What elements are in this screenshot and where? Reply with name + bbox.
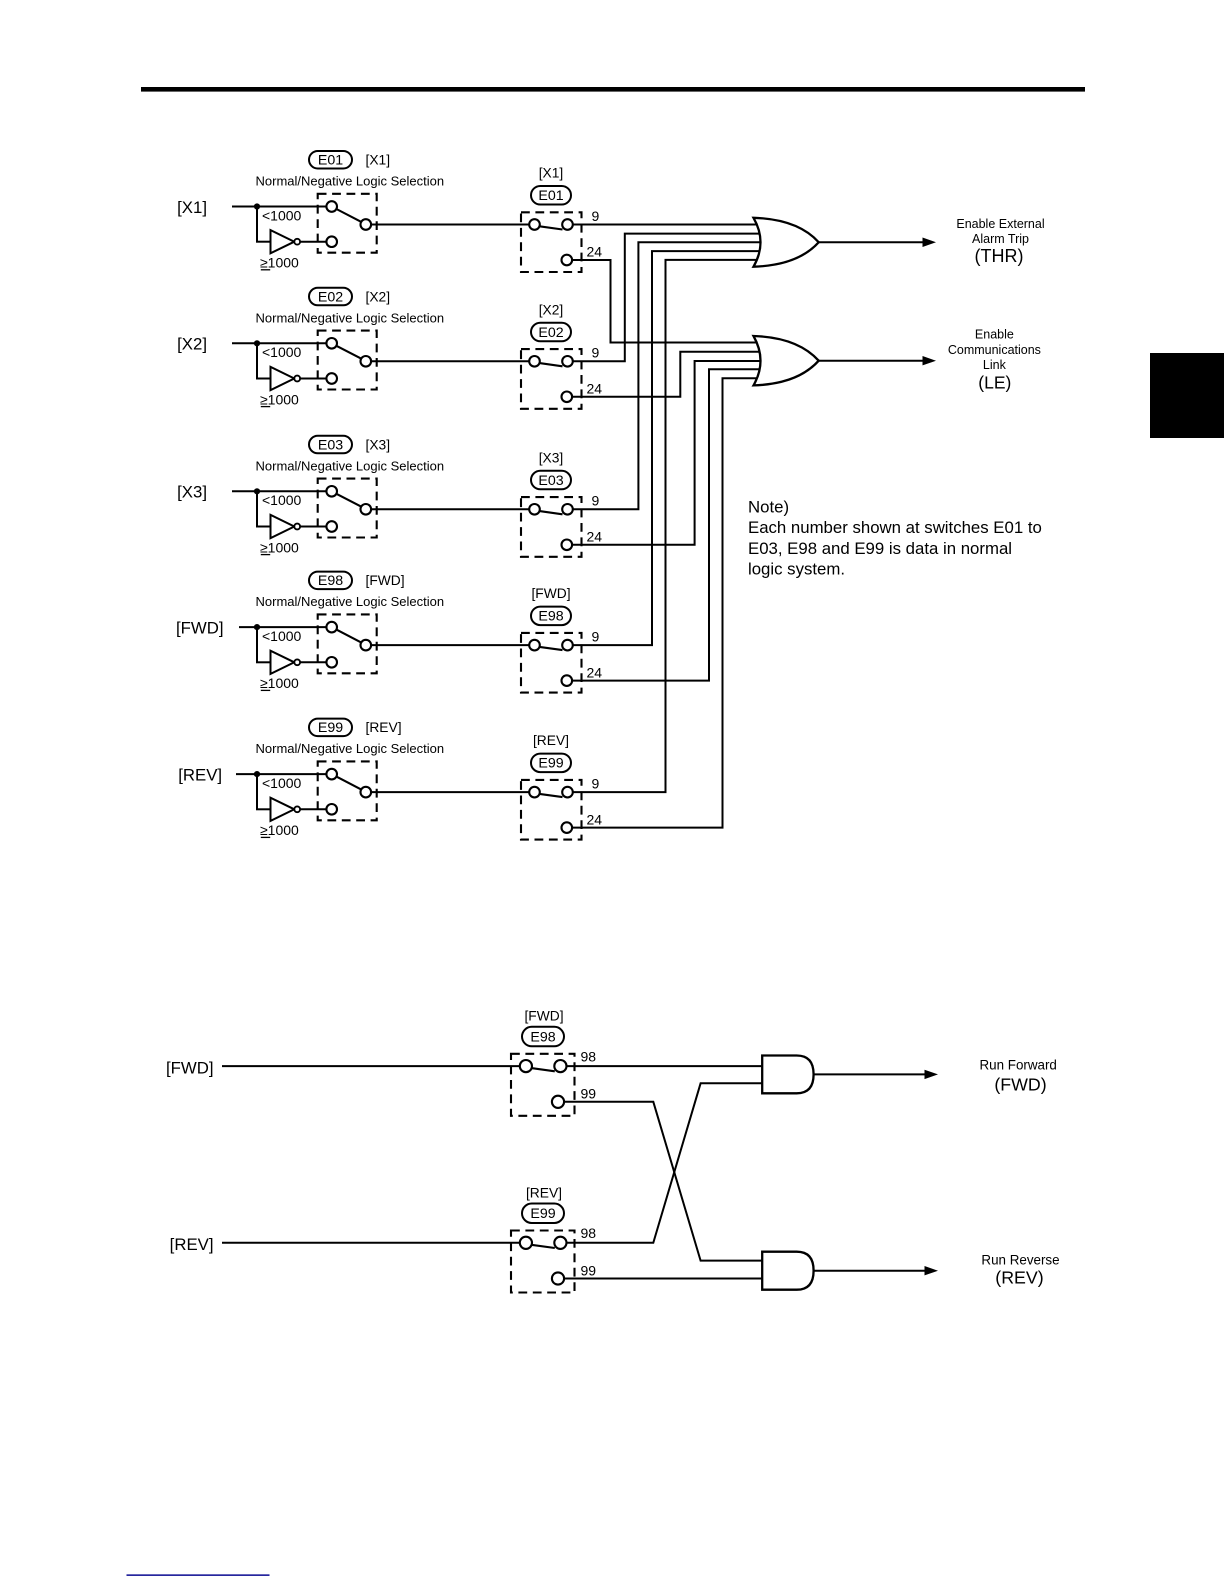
wire FWD input [239,626,327,628]
svg-text:9: 9 [592,628,600,644]
svg-text:Normal/Negative Logic Selectio: Normal/Negative Logic Selection [256,310,445,325]
wire U2 output with arrow [819,356,936,365]
svg-text:[X1]: [X1] [539,166,564,181]
svg-text:logic system.: logic system. [748,560,845,579]
junction X3 [254,488,260,494]
svg-text:99: 99 [581,1086,597,1102]
svg-text:<1000: <1000 [262,775,302,791]
svg-text:E03: E03 [538,473,563,489]
svg-text:E98: E98 [318,573,343,589]
label &lt;1000 (X1 normal logic) [262,207,302,223]
label &ge;1000 (X3 negative logic) [260,539,299,555]
label E01 (logic selection) [309,151,352,169]
svg-text:98: 98 [581,1225,597,1241]
svg-text:[X2]: [X2] [366,289,391,304]
svg-text:[X1]: [X1] [366,153,391,168]
pin label 9 (FWD) [592,628,600,644]
svg-text:[FWD]: [FWD] [176,619,224,638]
svg-text:[FWD]: [FWD] [531,586,570,601]
wire inverter REV output [300,808,327,810]
wire X3 data-24 to OR (LE) [572,361,763,545]
wire U1 output with arrow [819,238,936,248]
label E02 (logic selection) [309,288,352,306]
inverter X1 (negative logic) [271,230,301,253]
svg-text:[REV]: [REV] [526,1185,562,1200]
wire X2 input [232,342,327,344]
svg-text:9: 9 [592,775,600,791]
wire inverter X3 output [300,526,327,528]
row X2 channel [177,234,763,409]
label E99 (function code pill) [531,754,571,773]
svg-text:[FWD]: [FWD] [366,573,405,588]
label [FWD] beside E98 [366,573,405,588]
svg-text:[X1]: [X1] [177,198,207,217]
svg-text:9: 9 [592,493,600,509]
svg-text:E01: E01 [318,153,343,169]
pin label 24 (FWD) [587,664,603,680]
svg-text:E98: E98 [530,1029,555,1045]
wire X2 selected-logic to function switch [371,360,529,362]
row X1 channel [177,151,763,343]
wire X1 to inverter [256,206,271,242]
svg-text:Normal/Negative Logic Selectio: Normal/Negative Logic Selection [256,458,445,473]
pin label 9 (X1) [592,208,600,224]
pin label 98 (FWD) [581,1049,597,1065]
svg-text:[REV]: [REV] [170,1235,214,1254]
pin label 99 (FWD) [581,1086,597,1102]
pin label 9 (X2) [592,345,600,361]
label &lt;1000 (X2 normal logic) [262,344,302,360]
svg-text:Normal/Negative Logic Selectio: Normal/Negative Logic Selection [256,594,445,609]
node [X2] input terminal label [177,335,207,354]
junction FWD [254,624,260,630]
switch E99 logic-selection (SPDT) [318,761,377,820]
svg-text:Normal/Negative Logic Selectio: Normal/Negative Logic Selection [256,741,445,756]
label E02 (function code pill) [531,323,571,342]
label [REV] above function switch [533,733,569,748]
label &ge;1000 (X1 negative logic) [260,255,299,271]
svg-text:E01: E01 [538,188,563,204]
svg-text:Enable External: Enable External [956,217,1044,231]
label E98 (function code pill) [531,607,571,626]
label &ge;1000 (REV negative logic) [260,822,299,838]
row X3 channel [177,242,763,557]
switch E99 run command (bottom) [511,1231,575,1293]
label &ge;1000 (X2 negative logic) [260,391,299,407]
switch E03 function assignment [521,497,582,557]
svg-text:[REV]: [REV] [533,733,569,748]
label Run Reverse (REV) [981,1253,1059,1288]
wire FWD selected-logic to function switch [371,644,529,646]
wire FWD contact-99 crossing to AND (REV) [564,1102,762,1261]
label Enable Communications Link (LE) [948,327,1041,392]
svg-text:E03, E98 and E99 is data in no: E03, E98 and E99 is data in normal [748,539,1012,558]
junction X1 [254,203,260,209]
wire X3 data-9 to OR (THR) [573,242,763,509]
wire inverter FWD output [300,661,327,663]
svg-text:Run Reverse: Run Reverse [981,1253,1059,1268]
node [REV] input terminal label (bottom) [170,1235,214,1254]
wire X3 selected-logic to function switch [371,508,529,510]
svg-text:9: 9 [592,345,600,361]
pin label 24 (REV) [587,811,603,827]
svg-text:Enable: Enable [975,327,1014,341]
label [REV] beside E99 [366,720,402,735]
wire U3 output with arrow [814,1070,938,1079]
label E99 pill (bottom) [522,1204,564,1224]
svg-text:Normal/Negative Logic Selectio: Normal/Negative Logic Selection [256,174,445,189]
svg-text:24: 24 [587,811,603,827]
label Run Forward (FWD) [979,1058,1056,1095]
label Normal/Negative Logic Selection FWD [256,594,445,609]
and-gate U3 (Run Forward) [762,1056,813,1094]
label [X1] above function switch [539,166,564,181]
svg-text:98: 98 [581,1049,597,1065]
junction REV [254,771,260,777]
label E99 (logic selection) [309,719,352,737]
FWD run channel [166,1009,762,1261]
label Normal/Negative Logic Selection X1 [256,174,445,189]
wire inverter X1 output [300,241,327,243]
wire X1 data-9 to OR (THR) [573,224,763,226]
label Enable External Alarm Trip (THR) [956,217,1044,266]
top rule [141,87,1085,92]
svg-text:[FWD]: [FWD] [524,1009,563,1024]
svg-text:24: 24 [587,381,603,397]
svg-text:99: 99 [581,1262,597,1278]
wire X1 input [232,206,327,208]
label E03 (function code pill) [531,471,571,490]
wire X2 to inverter [256,342,271,378]
label &ge;1000 (FWD negative logic) [260,675,299,691]
label &lt;1000 (FWD normal logic) [262,628,302,644]
svg-text:(THR): (THR) [975,246,1024,266]
svg-text:≥1000: ≥1000 [260,539,299,555]
switch E99 function assignment [521,780,582,840]
wire REV to inverter [256,773,271,809]
svg-text:E99: E99 [530,1206,555,1222]
pin label 24 (X1) [587,244,603,260]
or-gate U2 (Enable Communications Link) [754,336,819,385]
REV run channel [170,1083,763,1292]
svg-text:<1000: <1000 [262,628,302,644]
label [FWD] above switch E98 (bottom) [524,1009,563,1024]
inverter FWD (negative logic) [271,651,301,674]
svg-text:[X3]: [X3] [366,437,391,452]
wire REV data-24 to OR (LE) [572,378,763,827]
label [FWD] above function switch [531,586,570,601]
svg-text:[FWD]: [FWD] [166,1058,214,1077]
node [REV] input terminal label [178,766,222,785]
svg-text:<1000: <1000 [262,344,302,360]
wire REV contact-99 to AND (REV) [564,1278,762,1280]
switch E98 run command (bottom) [511,1054,575,1116]
label Normal/Negative Logic Selection REV [256,741,445,756]
label &lt;1000 (REV normal logic) [262,775,302,791]
switch E02 logic-selection (SPDT) [318,331,377,390]
svg-text:9: 9 [592,208,600,224]
pin label 24 (X2) [587,381,603,397]
svg-text:Communications: Communications [948,343,1041,357]
wire REV input (bottom) [222,1242,520,1244]
svg-text:Each number shown at switches: Each number shown at switches E01 to [748,518,1042,537]
node [X1] input terminal label [177,198,207,217]
switch E02 function assignment [521,349,582,409]
svg-text:≥1000: ≥1000 [260,675,299,691]
chapter tab (black) [1150,353,1224,438]
wire X3 to inverter [256,490,271,526]
wire FWD input (bottom) [222,1065,520,1067]
switch E98 function assignment [521,633,582,693]
row REV channel [178,260,763,840]
or-gate U1 (Enable External Alarm Trip) [754,218,819,267]
label Normal/Negative Logic Selection X3 [256,458,445,473]
label E01 (function code pill) [531,186,571,205]
wire inverter X2 output [300,378,327,380]
pin label 98 (REV) [581,1225,597,1241]
node [FWD] input terminal label [176,619,224,638]
wire REV contact-98 crossing to AND (FWD) [566,1083,762,1243]
label [X1] beside E01 [366,153,391,168]
svg-text:(REV): (REV) [995,1268,1043,1288]
svg-text:(LE): (LE) [978,372,1011,392]
label &lt;1000 (X3 normal logic) [262,492,302,508]
footer rule (blue) [127,1574,270,1576]
label [X3] above function switch [539,450,564,465]
svg-text:[X2]: [X2] [177,335,207,354]
wire FWD contact-98 to AND (FWD) [566,1065,762,1067]
label [X2] above function switch [539,302,564,317]
svg-text:[REV]: [REV] [178,766,222,785]
label [REV] above switch E99 (bottom) [526,1185,562,1200]
wire X1 selected-logic to function switch [371,224,529,226]
inverter X2 (negative logic) [271,367,301,390]
svg-text:<1000: <1000 [262,207,302,223]
svg-text:<1000: <1000 [262,492,302,508]
svg-text:Run Forward: Run Forward [979,1058,1056,1073]
pin label 9 (X3) [592,493,600,509]
wire X1 data-24 to OR (LE) [572,260,763,343]
label Normal/Negative Logic Selection X2 [256,310,445,325]
svg-text:E99: E99 [538,756,563,772]
switch E01 logic-selection (SPDT) [318,194,377,253]
label [X2] beside E02 [366,289,391,304]
svg-text:E02: E02 [318,289,343,305]
wire X2 data-9 to OR (THR) [573,234,763,362]
inverter X3 (negative logic) [271,515,301,538]
and-gate U4 (Run Reverse) [762,1252,813,1290]
node [FWD] input terminal label (bottom) [166,1058,214,1077]
switch E01 function assignment [521,212,582,272]
wire FWD data-9 to OR (THR) [573,251,763,645]
wire FWD to inverter [256,626,271,662]
pin label 24 (X3) [587,529,603,545]
svg-text:Link: Link [983,358,1007,372]
svg-text:[REV]: [REV] [366,720,402,735]
wire X2 data-24 to OR (LE) [572,352,763,397]
pin label 9 (REV) [592,775,600,791]
svg-text:24: 24 [587,529,603,545]
wire X3 input [232,490,327,492]
wire REV selected-logic to function switch [371,791,529,793]
wire FWD data-24 to OR (LE) [572,369,763,680]
svg-text:≥1000: ≥1000 [260,391,299,407]
label E98 pill (bottom) [522,1027,564,1047]
svg-text:Alarm Trip: Alarm Trip [972,232,1029,246]
wire REV data-9 to OR (THR) [573,260,763,792]
row FWD channel [176,251,763,693]
svg-text:≥1000: ≥1000 [260,822,299,838]
wire U4 output with arrow [814,1266,938,1275]
inverter REV (negative logic) [271,798,301,821]
svg-text:E98: E98 [538,609,563,625]
switch E98 logic-selection (SPDT) [318,614,377,673]
node [X3] input terminal label [177,483,207,502]
svg-text:E02: E02 [538,325,563,341]
svg-text:≥1000: ≥1000 [260,255,299,271]
label E98 (logic selection) [309,572,352,590]
svg-text:24: 24 [587,244,603,260]
svg-text:[X2]: [X2] [539,302,564,317]
svg-text:E03: E03 [318,437,343,453]
svg-text:[X3]: [X3] [177,483,207,502]
svg-text:Note): Note) [748,498,789,517]
svg-text:(FWD): (FWD) [994,1075,1046,1095]
junction X2 [254,340,260,346]
wire REV input [236,773,327,775]
svg-text:[X3]: [X3] [539,450,564,465]
note text [748,498,1042,579]
svg-text:24: 24 [587,664,603,680]
pin label 99 (REV) [581,1262,597,1278]
label [X3] beside E03 [366,437,391,452]
label E03 (logic selection) [309,436,352,454]
svg-text:E99: E99 [318,720,343,736]
switch E03 logic-selection (SPDT) [318,479,377,538]
